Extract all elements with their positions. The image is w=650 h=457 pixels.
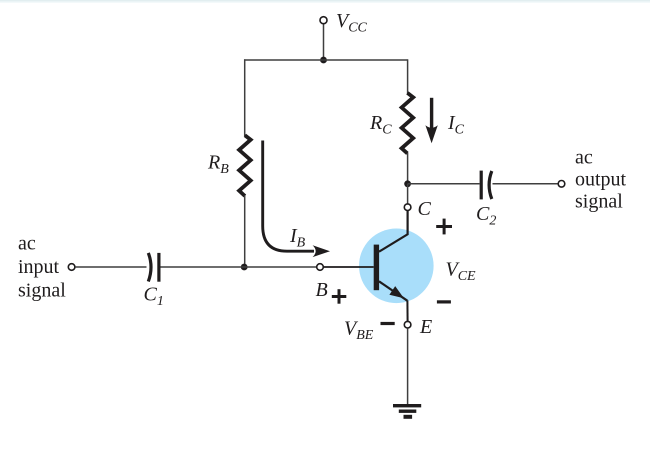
transistor Q1 (374, 245, 408, 301)
node C (404, 204, 411, 211)
svg-text:B: B (316, 279, 328, 301)
wire: junction down to node C (407, 184, 409, 204)
wire: rail down to RC (407, 59, 409, 93)
wire: emitter to node E (406, 300, 408, 321)
svg-text:E: E (419, 316, 432, 338)
wire: RC to collector junction (407, 153, 409, 184)
svg-text:signal: signal (575, 191, 623, 213)
wire: RB to base node (244, 196, 246, 268)
junction: collector / output (404, 180, 411, 187)
current arrow IC (425, 98, 437, 143)
wire: junction to C2 (408, 183, 480, 185)
wire: C1 to node B (161, 266, 317, 268)
node input terminal (68, 264, 75, 271)
wire: top rail (244, 59, 408, 61)
svg-text:ac: ac (575, 147, 593, 169)
wire: Vcc terminal to top rail (323, 24, 325, 60)
label: plus (VCE) (436, 219, 452, 235)
svg-text:ac: ac (18, 233, 36, 255)
wire: E to ground (407, 329, 409, 405)
svg-text:output: output (575, 169, 627, 191)
node Vcc terminal (320, 17, 327, 24)
wire: C2 to output terminal (493, 183, 558, 185)
svg-text:signal: signal (18, 280, 66, 302)
svg-text:input: input (18, 256, 60, 278)
node B (317, 264, 324, 271)
capacitor C1 (148, 253, 159, 282)
node output terminal (558, 181, 565, 188)
label: plus (VBE) (332, 289, 347, 304)
label: minus (VCE) (437, 300, 451, 303)
ground (393, 404, 421, 419)
label: minus (VBE) (381, 322, 395, 325)
resistor RC (402, 93, 414, 153)
wire: rail down to RB (244, 59, 246, 136)
resistor RB (239, 135, 251, 196)
junction: base wire / RB (241, 264, 248, 271)
wire: collector (node C to transistor) (379, 211, 408, 252)
transistor Q1 highlight circle (359, 228, 434, 303)
capacitor C2 (481, 171, 492, 200)
wire: input terminal to C1 (75, 266, 146, 268)
current arrow IB (263, 141, 314, 252)
wire: base (324, 266, 374, 268)
svg-text:C: C (418, 198, 432, 220)
junction: Vcc on top rail (320, 57, 327, 64)
node E (404, 321, 411, 328)
